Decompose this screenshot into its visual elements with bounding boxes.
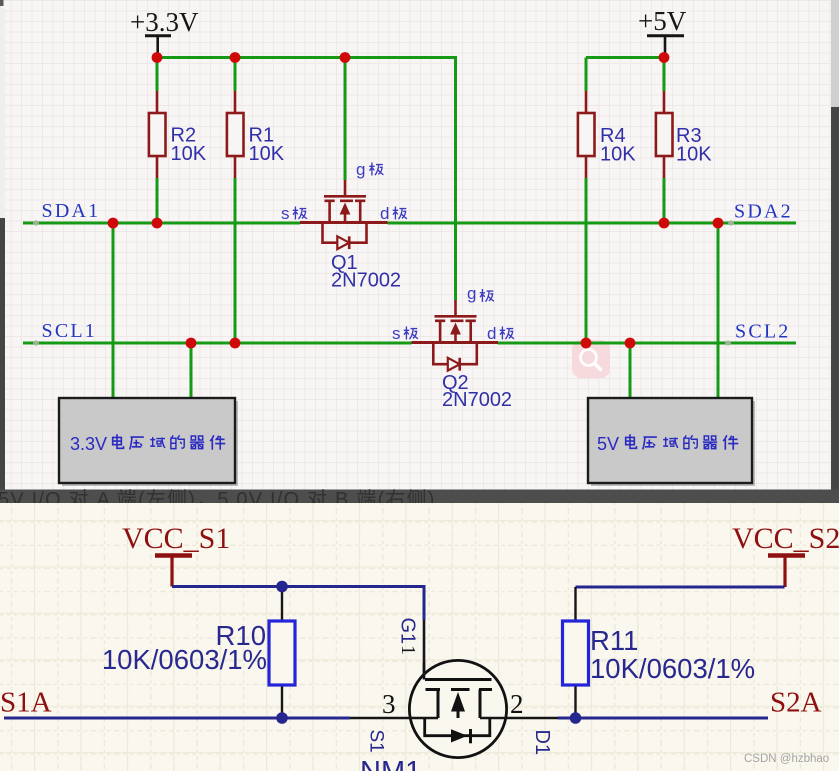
svg-text:10K: 10K (171, 143, 207, 165)
power VCC_S1 (122, 522, 230, 587)
junction dots top bus (152, 52, 670, 63)
resistor R10 (102, 587, 295, 719)
bottom schematic background grid (0, 503, 839, 771)
anchor cross SDA1 (33, 220, 39, 226)
magnifier watermark icon (572, 340, 610, 378)
svg-text:d: d (380, 204, 389, 223)
svg-text:VCC_S1: VCC_S1 (122, 522, 230, 555)
transistor Q2 2N7002 (412, 300, 499, 371)
dark caption band (0, 488, 839, 511)
svg-text:10K: 10K (600, 144, 636, 166)
svg-text:10K: 10K (676, 144, 712, 166)
junction dots SCL1 (186, 338, 241, 349)
left edge strip (0, 0, 5, 490)
designator Q1 (331, 252, 358, 274)
svg-text:s: s (392, 324, 401, 343)
power +5V symbol (638, 6, 687, 58)
pin label S1 (366, 730, 387, 753)
svg-text:10K/0603/1%: 10K/0603/1% (102, 644, 267, 675)
pin number 2 (510, 689, 524, 719)
transistor NM1 internals (350, 680, 558, 744)
svg-text:+5V: +5V (638, 6, 687, 36)
wire NM1 gate black lead (423, 620, 426, 680)
wire: box2 lead from SDA2 (717, 223, 720, 398)
anchor cross SCL2 (725, 340, 731, 346)
resistor R3 (656, 91, 712, 178)
net label SCL1 (42, 320, 97, 342)
wire: SCL1 net (23, 342, 412, 345)
net label SDA1 (42, 200, 101, 222)
svg-text:2N7002: 2N7002 (442, 389, 512, 411)
junction dot S2A/R11 (570, 712, 582, 724)
junction dots SDA1 (108, 218, 163, 229)
label d极 Q2 (487, 324, 514, 343)
label g极 Q1 (356, 160, 383, 179)
pin label G1 (397, 618, 419, 645)
wire S2A net (558, 717, 768, 720)
junction dots SDA2 (659, 218, 724, 229)
svg-text:NM1: NM1 (360, 756, 421, 771)
net label S2A (770, 687, 822, 719)
wire: SCL bus right of Q2 to SCL2 (498, 342, 797, 345)
junction dots SCL2 (581, 338, 636, 349)
svg-text:2: 2 (510, 689, 524, 719)
resistor R2 (149, 91, 207, 178)
junction dot VCC_S1/R10 (276, 581, 288, 593)
wire: box1 lead from SDA1 (112, 223, 115, 398)
net label SDA2 (734, 201, 793, 223)
pin number 3 (382, 689, 396, 719)
svg-text:g: g (356, 160, 365, 179)
wire: R1 column green (234, 58, 237, 344)
svg-text:R11: R11 (590, 625, 638, 656)
label d极 Q1 (380, 204, 407, 223)
svg-text:1: 1 (397, 645, 419, 655)
power VCC_S2 (732, 522, 839, 587)
wire: Q1 gate green (344, 58, 347, 181)
top schematic background grid (0, 0, 839, 490)
svg-text:SCL2: SCL2 (735, 321, 790, 343)
designator NM1 (360, 756, 421, 771)
designator Q2 (442, 372, 469, 394)
wire: box1 lead from SCL1 (190, 343, 193, 398)
block 5V domain device box (588, 398, 755, 486)
wire: R2 column green (156, 58, 159, 224)
svg-text:3.3V: 3.3V (70, 434, 107, 454)
svg-text:VCC_S2: VCC_S2 (732, 522, 839, 555)
value 2N7002 Q1 (331, 270, 401, 292)
svg-text:s: s (281, 204, 290, 223)
junction dot S1A/R10 (276, 712, 288, 724)
wire: 5V top bus (586, 56, 664, 59)
block 3.3V domain device box (59, 398, 238, 486)
svg-text:10K/0603/1%: 10K/0603/1% (590, 653, 755, 684)
right edge strip (831, 0, 839, 490)
pin label D1 (531, 730, 553, 756)
svg-text:10K: 10K (249, 143, 285, 165)
wire: R3 column green (663, 58, 666, 224)
transistor Q1 2N7002 (300, 180, 388, 249)
pin number 1 (gate, rotated) (397, 645, 419, 655)
svg-text:d: d (487, 324, 496, 343)
svg-text:SCL1: SCL1 (42, 320, 97, 342)
label s极 Q1 (281, 204, 307, 223)
transistor NM1 body circle (409, 660, 506, 757)
wire S1A net (4, 717, 350, 720)
wire VCC_S1 horizontal and gate drop (172, 587, 424, 621)
svg-text:SDA1: SDA1 (42, 200, 101, 222)
net label S1A (0, 687, 52, 719)
resistor R1 (227, 91, 285, 178)
label g极 Q2 (467, 284, 494, 303)
svg-text:S1: S1 (366, 730, 387, 753)
wire: box2 lead from SCL2 (629, 343, 632, 398)
svg-text:5V: 5V (597, 434, 619, 454)
svg-text:+3.3V: +3.3V (130, 7, 199, 37)
wire: 3.3V top bus to Q2 gate (157, 58, 456, 301)
power +3.3V symbol (130, 7, 199, 58)
wire: SDA bus right of Q1 to SDA2 (388, 222, 797, 225)
resistor R11 (563, 587, 756, 718)
svg-text:2N7002: 2N7002 (331, 270, 401, 292)
svg-text:g: g (467, 284, 476, 303)
svg-text:SDA2: SDA2 (734, 201, 793, 223)
wire VCC_S2 horizontal (576, 586, 785, 589)
wire NM1 gate inside circle (423, 662, 426, 680)
svg-text:G1: G1 (397, 618, 419, 645)
svg-text:3: 3 (382, 689, 396, 719)
svg-text:CSDN @hzbhao: CSDN @hzbhao (744, 753, 829, 765)
resistor R4 (578, 91, 636, 178)
svg-text:D1: D1 (531, 730, 553, 756)
svg-text:S2A: S2A (770, 687, 822, 719)
net label SCL2 (735, 321, 790, 343)
anchor cross SDA2 (728, 220, 734, 226)
wire: SDA1 net (23, 222, 300, 225)
watermark CSDN (744, 753, 829, 765)
label s极 Q2 (392, 324, 418, 343)
svg-text:S1A: S1A (0, 687, 52, 719)
anchor cross SCL1 (33, 340, 39, 346)
wire: R4 column green (585, 58, 588, 344)
value 2N7002 Q2 (442, 389, 512, 411)
